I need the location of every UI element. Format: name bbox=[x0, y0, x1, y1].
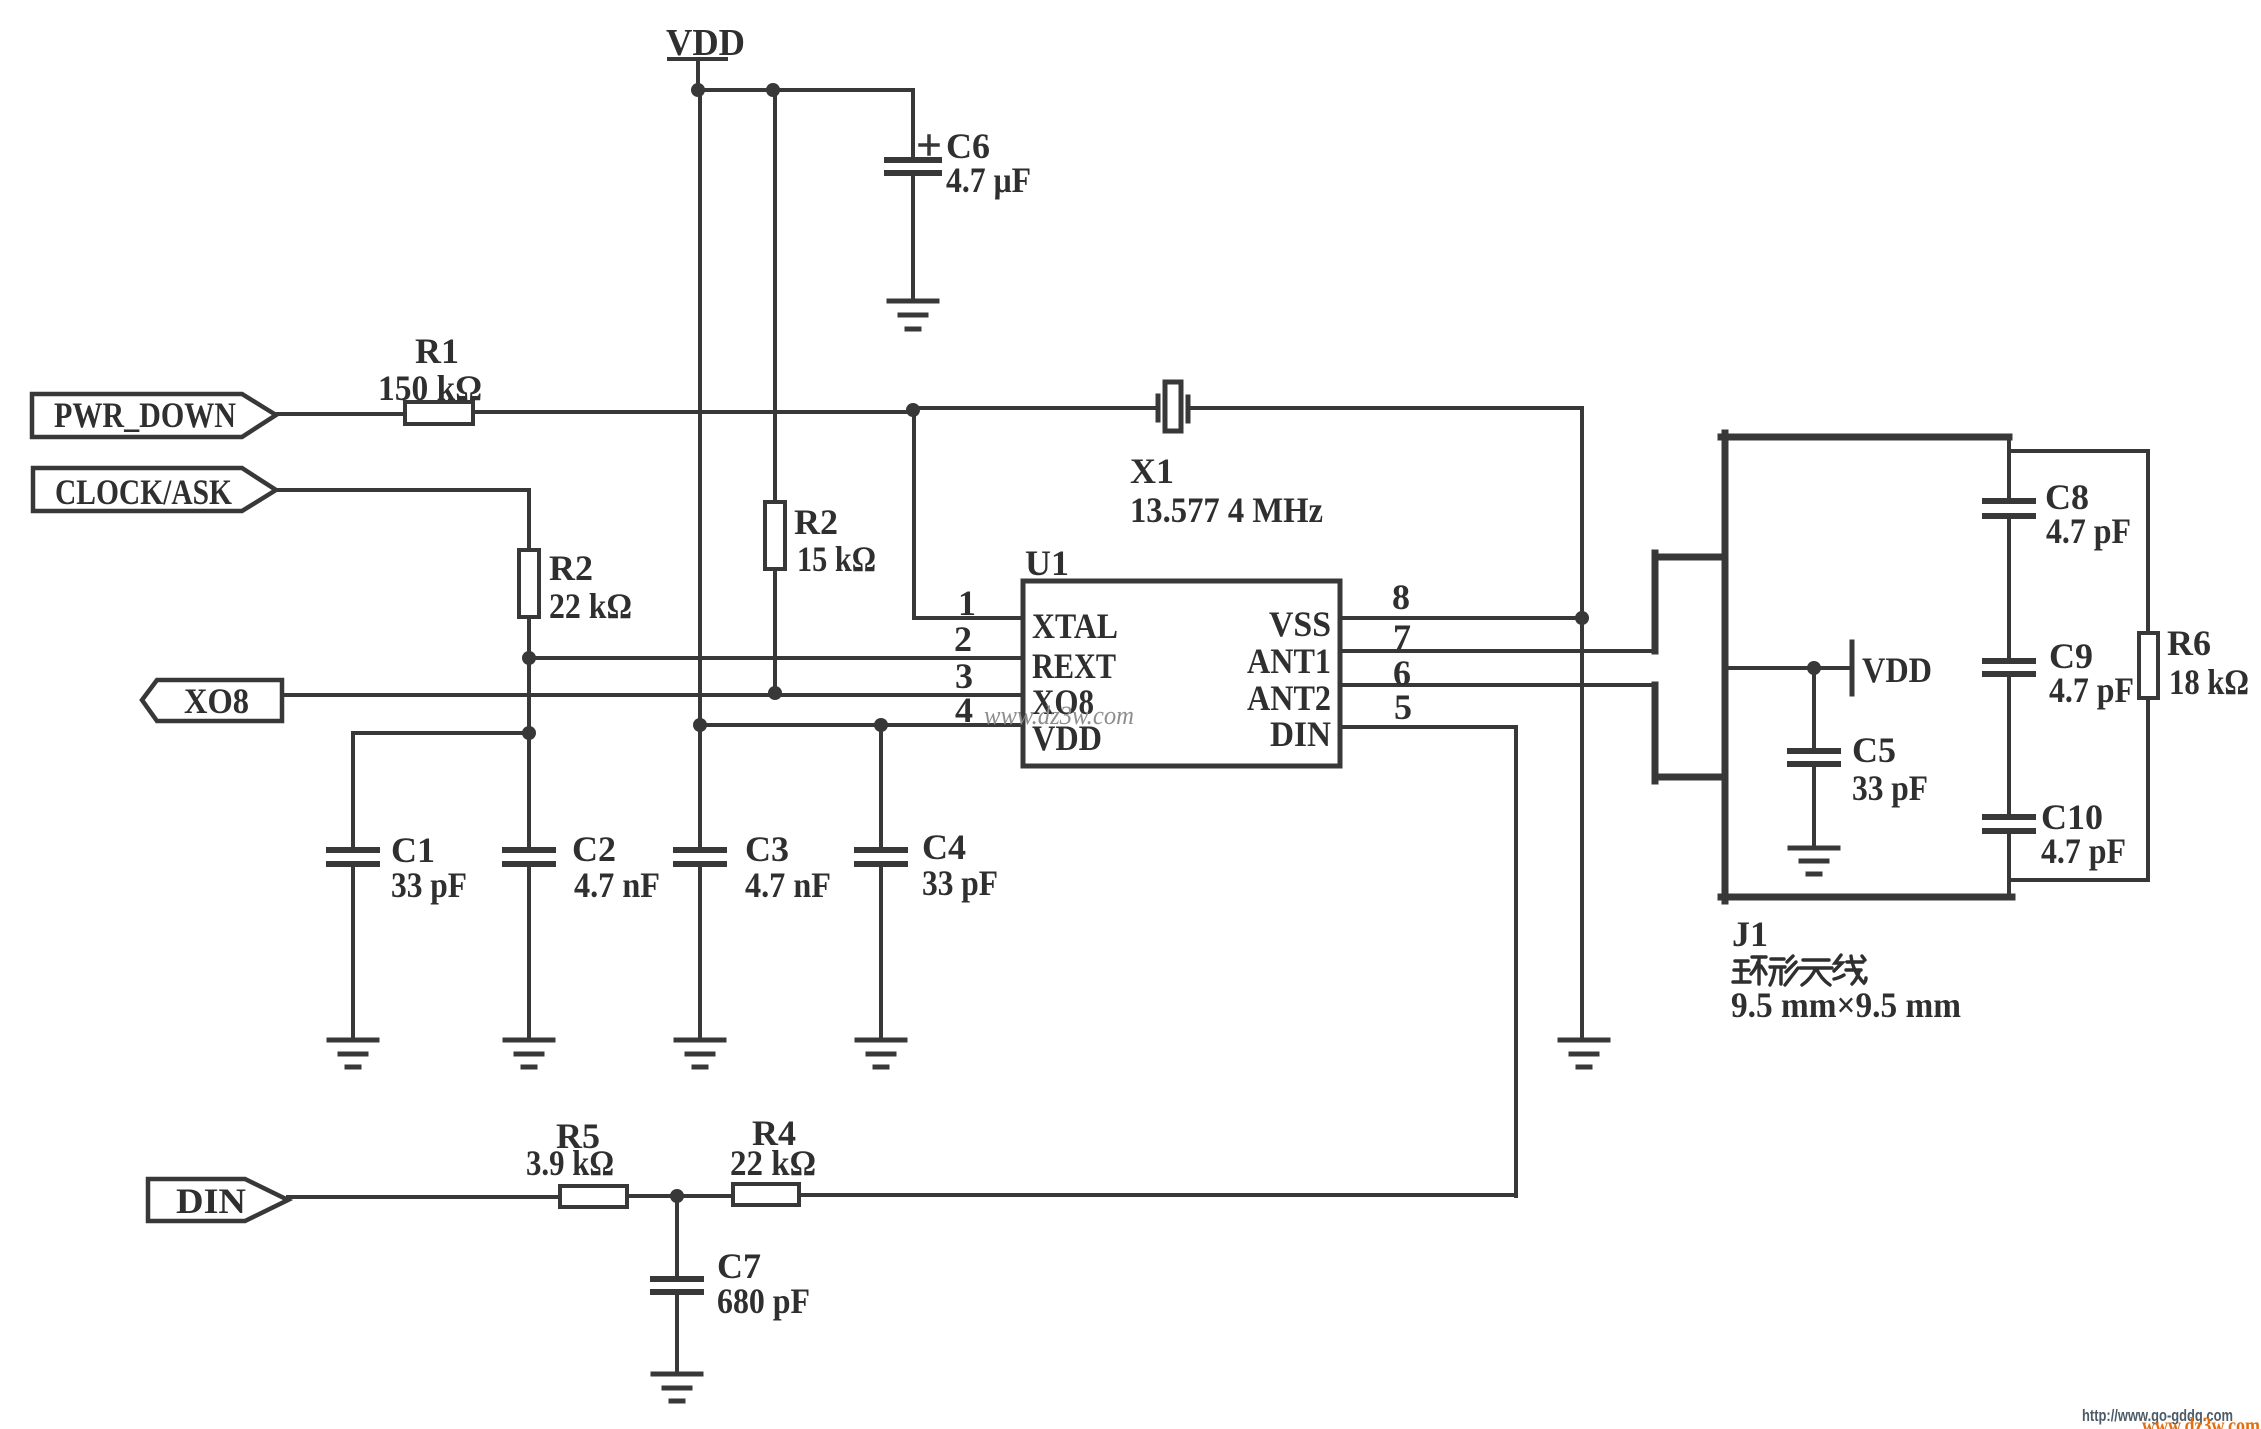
ground under C7 bbox=[653, 1374, 701, 1401]
wire cap chain segment 3 bbox=[2007, 677, 2011, 814]
svg-text:VDD: VDD bbox=[1862, 650, 1932, 690]
svg-text:4.7 μF: 4.7 μF bbox=[946, 160, 1031, 200]
wire C1 to ground bbox=[351, 867, 355, 1039]
flag CLOCK/ASK input bbox=[33, 468, 276, 511]
wire VDD pin 4 bbox=[700, 723, 1023, 727]
wire down to XTAL pin bbox=[912, 412, 916, 618]
capacitor C10 plates bbox=[1985, 817, 2033, 831]
wire REXT pin 2 bbox=[529, 656, 1023, 660]
svg-text:C3: C3 bbox=[745, 829, 789, 869]
wire C7 vertical bbox=[675, 1196, 679, 1276]
svg-text:33 pF: 33 pF bbox=[922, 863, 998, 903]
capacitor C6 plus sign bbox=[920, 136, 938, 154]
wire PWR_DOWN to R1 bbox=[276, 412, 405, 416]
power VDD top rail symbol bbox=[669, 59, 726, 90]
ground under C5 bbox=[1790, 848, 1838, 874]
wire C2 to ground bbox=[527, 867, 531, 1039]
capacitor C2 plates bbox=[505, 850, 553, 864]
svg-text:U1: U1 bbox=[1025, 543, 1069, 583]
svg-text:22 kΩ: 22 kΩ bbox=[730, 1143, 816, 1183]
wire J1 right cap chain segment 1 bbox=[2007, 440, 2011, 498]
node junction C4 bbox=[874, 718, 888, 732]
svg-text:680 pF: 680 pF bbox=[717, 1281, 810, 1321]
node junction C1 link bbox=[522, 726, 536, 740]
svg-text:1: 1 bbox=[958, 583, 976, 623]
antenna J1 block outline bbox=[1721, 433, 2012, 901]
capacitor C1 plates bbox=[329, 850, 377, 864]
capacitor C6 plates bbox=[887, 160, 939, 173]
label C1 bbox=[391, 830, 467, 905]
label C2 bbox=[572, 829, 660, 905]
svg-text:ANT1: ANT1 bbox=[1247, 641, 1331, 681]
svg-text:C7: C7 bbox=[717, 1246, 761, 1286]
label R5 bbox=[526, 1116, 614, 1183]
svg-text:13.577 4 MHz: 13.577 4 MHz bbox=[1130, 490, 1323, 530]
node junction VSS bbox=[1575, 611, 1589, 625]
svg-text:X1: X1 bbox=[1130, 451, 1174, 491]
label R2 22k bbox=[549, 548, 632, 626]
svg-text:ANT2: ANT2 bbox=[1247, 678, 1331, 718]
svg-text:XTAL: XTAL bbox=[1032, 606, 1118, 646]
svg-text:22 kΩ: 22 kΩ bbox=[549, 586, 632, 626]
antenna J1 connector tab bbox=[1655, 553, 1725, 781]
svg-text:R6: R6 bbox=[2167, 623, 2211, 663]
capacitor C4 plates bbox=[857, 850, 905, 864]
svg-text:18 kΩ: 18 kΩ bbox=[2169, 662, 2249, 702]
resistor R1 body bbox=[405, 402, 473, 424]
ground under VSS line bbox=[1560, 1040, 1608, 1067]
wire ANT1 pin 7 bbox=[1340, 649, 1655, 653]
node junction on VDD rail (right) bbox=[766, 83, 780, 97]
wire VDD rail horizontal bbox=[698, 88, 913, 92]
node junction C5 bbox=[1807, 661, 1821, 675]
svg-text:VSS: VSS bbox=[1269, 604, 1331, 644]
svg-text:CLOCK/ASK: CLOCK/ASK bbox=[55, 472, 232, 512]
crystal X1 symbol bbox=[1158, 382, 1188, 431]
svg-text:DIN: DIN bbox=[1270, 714, 1331, 754]
flag XO8 output bbox=[142, 680, 282, 721]
wire DIN to R5 bbox=[288, 1195, 560, 1199]
svg-text:J1: J1 bbox=[1732, 914, 1768, 954]
power VDD bar inside J1 bbox=[1850, 642, 1855, 694]
wire C4 to ground bbox=[879, 867, 883, 1039]
flag PWR_DOWN input bbox=[32, 394, 276, 437]
ground under C2 bbox=[505, 1040, 553, 1067]
svg-text:150 kΩ: 150 kΩ bbox=[378, 368, 482, 408]
wire R6 branch top bbox=[2010, 451, 2148, 633]
svg-text:33 pF: 33 pF bbox=[391, 865, 467, 905]
wire R1 to crystal node bbox=[473, 410, 913, 414]
wire R2 15k bottom to XO8 net bbox=[773, 569, 777, 693]
wire C6 branch from VDD rail bbox=[911, 90, 915, 157]
wire CLOCK/ASK to R2 22k bbox=[276, 490, 529, 550]
wire cap chain segment 2 bbox=[2007, 519, 2011, 658]
resistor R6 body bbox=[2139, 633, 2158, 698]
label R2 15k bbox=[794, 502, 876, 579]
svg-text:www.dz3w.com: www.dz3w.com bbox=[2142, 1413, 2260, 1429]
ground under C3 bbox=[676, 1040, 724, 1067]
svg-text:C4: C4 bbox=[922, 827, 966, 867]
wire R4 to DIN pin riser bbox=[799, 1193, 1516, 1197]
label J1 chinese loop-antenna glyphs bbox=[1733, 955, 1866, 985]
svg-text:4.7 pF: 4.7 pF bbox=[2041, 831, 2126, 871]
wire ANT2 pin 6 bbox=[1340, 683, 1655, 687]
wire VDD vertical line B upper (to R2 15k) bbox=[773, 90, 777, 502]
wire C6 to ground bbox=[911, 176, 915, 300]
ground under C1 bbox=[329, 1040, 377, 1067]
svg-text:PWR_DOWN: PWR_DOWN bbox=[54, 395, 236, 435]
ground under C6 bbox=[889, 301, 937, 329]
node junction R2-15k on XO8 wire bbox=[768, 686, 782, 700]
wire C4 vertical bbox=[879, 725, 883, 847]
svg-text:33 pF: 33 pF bbox=[1852, 768, 1928, 808]
flag DIN input bbox=[148, 1179, 288, 1221]
wire VDD vertical line A (to C3 / VDD pin) bbox=[698, 90, 702, 847]
label R1 bbox=[378, 331, 482, 408]
wire XO8 pin 3 bbox=[282, 693, 1023, 697]
svg-text:C2: C2 bbox=[572, 829, 616, 869]
resistor R2 (15 k) body bbox=[765, 502, 785, 569]
svg-text:3.9 kΩ: 3.9 kΩ bbox=[526, 1143, 614, 1183]
wire R6 branch bottom bbox=[2012, 698, 2148, 880]
svg-text:REXT: REXT bbox=[1032, 646, 1116, 686]
node junction C7 bbox=[670, 1189, 684, 1203]
wire crystal left lead bbox=[913, 406, 1156, 410]
wire VSS pin 8 stub bbox=[1340, 616, 1582, 620]
svg-text:9.5 mm×9.5 mm: 9.5 mm×9.5 mm bbox=[1731, 985, 1961, 1025]
svg-text:8: 8 bbox=[1392, 577, 1410, 617]
svg-text:DIN: DIN bbox=[176, 1181, 246, 1221]
label C10 bbox=[2041, 797, 2126, 871]
wire cap chain segment 4 bbox=[2007, 834, 2011, 894]
svg-text:4.7 nF: 4.7 nF bbox=[574, 865, 660, 905]
svg-text:2: 2 bbox=[954, 619, 972, 659]
svg-text:4: 4 bbox=[955, 690, 973, 730]
svg-text:R2: R2 bbox=[549, 548, 593, 588]
resistor R4 body bbox=[733, 1184, 799, 1205]
capacitor C5 plates bbox=[1790, 751, 1838, 764]
wire C1 vertical bbox=[351, 733, 355, 847]
wire XTAL pin 1 stub bbox=[914, 616, 1023, 620]
svg-text:7: 7 bbox=[1393, 617, 1411, 657]
capacitor C8 plates bbox=[1985, 501, 2033, 516]
resistor R5 body bbox=[560, 1186, 627, 1207]
svg-text:15 kΩ: 15 kΩ bbox=[797, 539, 876, 579]
svg-text:R1: R1 bbox=[415, 331, 459, 371]
label R6 bbox=[2167, 623, 2249, 702]
label C3 bbox=[745, 829, 831, 905]
node junction on VDD rail (left) bbox=[691, 83, 705, 97]
svg-text:5: 5 bbox=[1394, 687, 1412, 727]
node junction REXT bbox=[522, 651, 536, 665]
label C8 bbox=[2045, 477, 2131, 551]
label C4 bbox=[922, 827, 998, 903]
svg-text:C5: C5 bbox=[1852, 730, 1896, 770]
wire C5 to ground bbox=[1812, 767, 1816, 847]
wire crystal right lead bbox=[1191, 406, 1582, 410]
resistor R2 (22 k) body bbox=[519, 550, 539, 617]
svg-text:R2: R2 bbox=[794, 502, 838, 542]
op IC U1 box bbox=[1023, 581, 1340, 766]
svg-text:4.7 pF: 4.7 pF bbox=[2046, 511, 2131, 551]
wire C7 to ground bbox=[675, 1295, 679, 1373]
wire R5 to R4 bbox=[627, 1194, 733, 1198]
label R4 bbox=[730, 1113, 816, 1183]
svg-text:4.7 pF: 4.7 pF bbox=[2049, 670, 2134, 710]
wire VDD inside J1 bbox=[1729, 666, 1850, 670]
svg-text:C1: C1 bbox=[391, 830, 435, 870]
capacitor C3 plates bbox=[676, 850, 724, 864]
wire VSS vertical down to ground bbox=[1580, 408, 1584, 1039]
capacitor C7 plates bbox=[653, 1279, 701, 1292]
node junction PWR/XTAL/crystal bbox=[906, 403, 920, 417]
svg-text:www.dz3w.com: www.dz3w.com bbox=[984, 701, 1134, 730]
label C7 bbox=[717, 1246, 810, 1321]
label C6 bbox=[946, 126, 1031, 200]
wire DIN pin 5 down to R4 bbox=[1340, 727, 1516, 1196]
svg-text:4.7 nF: 4.7 nF bbox=[745, 865, 831, 905]
wire R2 22k bottom down to C2 bbox=[527, 617, 531, 847]
wire C3 to ground bbox=[698, 867, 702, 1039]
svg-text:XO8: XO8 bbox=[184, 681, 249, 721]
node junction VDD pin branch bbox=[693, 718, 707, 732]
svg-text:VDD: VDD bbox=[666, 22, 745, 64]
label X1 crystal bbox=[1130, 451, 1323, 530]
label C9 bbox=[2049, 636, 2134, 710]
wire C1 top link bbox=[353, 731, 529, 735]
ground under C4 bbox=[857, 1040, 905, 1067]
capacitor C9 plates bbox=[1985, 661, 2033, 674]
label C5 bbox=[1852, 730, 1928, 808]
wire C5 vertical bbox=[1812, 668, 1816, 749]
